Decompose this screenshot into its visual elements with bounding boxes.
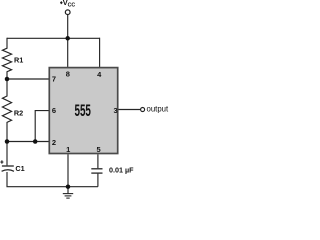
svg-text:0.01 µF: 0.01 µF <box>109 166 134 175</box>
svg-text:5: 5 <box>97 145 101 154</box>
svg-text:1: 1 <box>66 145 70 154</box>
svg-text:8: 8 <box>66 69 70 78</box>
svg-text:555: 555 <box>75 102 91 120</box>
svg-text:6: 6 <box>52 106 56 115</box>
svg-text:3: 3 <box>114 106 118 115</box>
svg-text:R2: R2 <box>14 109 23 118</box>
svg-text:2: 2 <box>52 138 56 147</box>
svg-text:7: 7 <box>52 75 56 84</box>
svg-text:R1: R1 <box>14 55 23 64</box>
svg-text:output: output <box>147 104 170 113</box>
svg-text:CC: CC <box>68 3 76 9</box>
svg-text:C1: C1 <box>15 164 24 173</box>
